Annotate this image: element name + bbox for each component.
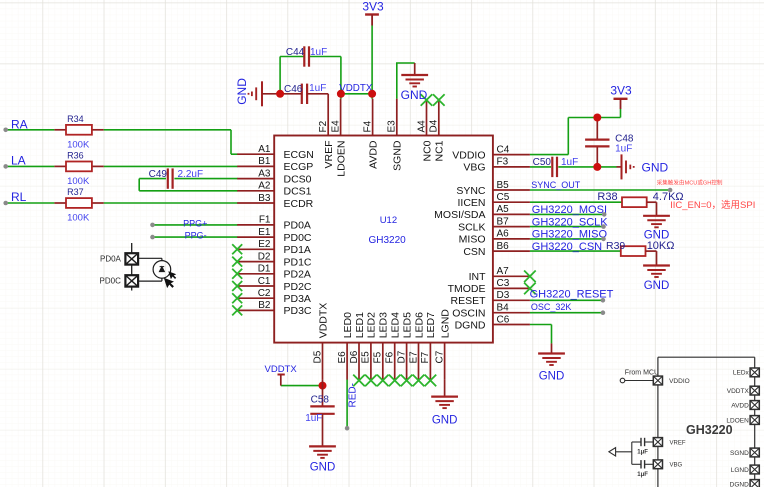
svg-text:GND: GND <box>539 371 565 383</box>
svg-text:E3: E3 <box>387 120 398 133</box>
svg-text:DCS1: DCS1 <box>284 186 312 198</box>
svg-text:GH3220_CSN: GH3220_CSN <box>532 241 602 253</box>
svg-text:E1: E1 <box>258 227 271 238</box>
svg-text:C7: C7 <box>434 350 445 363</box>
svg-text:GH3220_MISO: GH3220_MISO <box>532 229 608 241</box>
svg-text:B7: B7 <box>497 216 510 227</box>
svg-text:VDDTX: VDDTX <box>727 388 750 395</box>
svg-text:LGND: LGND <box>439 309 451 339</box>
svg-text:100K: 100K <box>67 139 90 150</box>
svg-text:1μF: 1μF <box>637 472 648 478</box>
svg-text:GH3220_RESET: GH3220_RESET <box>530 288 614 300</box>
svg-text:INT: INT <box>469 271 487 283</box>
svg-text:3V3: 3V3 <box>610 84 632 98</box>
svg-text:From MCU: From MCU <box>625 369 659 376</box>
svg-text:LED5: LED5 <box>401 312 413 338</box>
svg-text:R38: R38 <box>597 191 617 203</box>
svg-text:E5: E5 <box>361 351 372 364</box>
svg-text:SYNC: SYNC <box>456 185 486 197</box>
svg-text:A6: A6 <box>497 229 510 240</box>
svg-text:C6: C6 <box>497 314 510 325</box>
svg-text:D3: D3 <box>497 290 510 301</box>
svg-text:DCS0: DCS0 <box>284 173 312 185</box>
svg-text:PPG+: PPG+ <box>183 218 207 228</box>
svg-text:C58: C58 <box>311 394 330 405</box>
svg-text:采集触发由MCU或GH控制: 采集触发由MCU或GH控制 <box>657 178 723 186</box>
svg-text:D5: D5 <box>312 350 323 363</box>
svg-text:PD1C: PD1C <box>284 256 312 268</box>
svg-text:NC0: NC0 <box>421 140 433 161</box>
svg-text:3V3: 3V3 <box>362 0 384 13</box>
svg-text:VDDTX: VDDTX <box>317 303 329 339</box>
svg-text:C1: C1 <box>258 276 271 287</box>
svg-text:2.2uF: 2.2uF <box>178 169 204 180</box>
svg-text:DGND: DGND <box>730 481 749 487</box>
svg-text:R37: R37 <box>67 187 84 197</box>
svg-text:PD0C: PD0C <box>284 232 312 244</box>
svg-text:IICEN: IICEN <box>457 197 485 209</box>
svg-text:1uF: 1uF <box>310 47 327 58</box>
svg-text:MOSI/SDA: MOSI/SDA <box>434 209 485 221</box>
svg-text:F7: F7 <box>420 351 431 363</box>
svg-text:A2: A2 <box>258 181 271 192</box>
svg-text:IIC_EN=0，选用SPI: IIC_EN=0，选用SPI <box>670 199 755 211</box>
svg-text:D4: D4 <box>429 119 440 132</box>
svg-text:C50: C50 <box>533 157 552 168</box>
svg-text:RESET: RESET <box>450 295 486 307</box>
svg-text:C3: C3 <box>497 278 510 289</box>
svg-text:E7: E7 <box>408 351 419 364</box>
svg-text:A3: A3 <box>258 168 271 179</box>
svg-text:CSN: CSN <box>463 246 485 258</box>
svg-text:F3: F3 <box>497 157 509 168</box>
svg-text:E6: E6 <box>337 351 348 364</box>
svg-text:GND: GND <box>432 415 458 427</box>
svg-text:VREF: VREF <box>323 141 335 169</box>
svg-text:SGND: SGND <box>392 140 404 171</box>
svg-text:C49: C49 <box>149 169 168 180</box>
svg-text:PD0A: PD0A <box>284 220 311 232</box>
svg-text:D1: D1 <box>258 264 271 275</box>
svg-text:B4: B4 <box>497 303 510 314</box>
svg-text:SCLK: SCLK <box>458 221 485 233</box>
svg-text:GH3220_SCLK: GH3220_SCLK <box>532 216 608 228</box>
svg-text:PD0A: PD0A <box>100 255 122 264</box>
svg-text:F6: F6 <box>385 351 396 363</box>
svg-text:LED3: LED3 <box>378 312 390 338</box>
svg-text:LGND: LGND <box>731 467 749 474</box>
svg-text:RA: RA <box>11 117 28 131</box>
svg-text:R36: R36 <box>67 150 84 160</box>
svg-text:B5: B5 <box>497 180 510 191</box>
svg-text:AVDD: AVDD <box>731 402 749 409</box>
svg-text:ECGP: ECGP <box>284 161 314 173</box>
svg-text:C4: C4 <box>497 144 510 155</box>
svg-text:VREF: VREF <box>670 441 686 447</box>
svg-text:VBG: VBG <box>463 162 485 174</box>
svg-text:F4: F4 <box>362 120 373 132</box>
svg-text:GND: GND <box>401 88 428 102</box>
svg-text:OSCIN: OSCIN <box>452 308 485 320</box>
svg-text:C5: C5 <box>497 192 510 203</box>
svg-text:DGND: DGND <box>455 319 486 331</box>
svg-text:GH3220_MOSI: GH3220_MOSI <box>532 204 607 216</box>
svg-text:U12: U12 <box>380 215 397 226</box>
svg-text:LED6: LED6 <box>413 312 425 338</box>
svg-text:LED0: LED0 <box>342 312 354 338</box>
svg-text:D2: D2 <box>258 251 271 262</box>
svg-text:PD3C: PD3C <box>284 305 312 317</box>
svg-text:1uF: 1uF <box>309 83 326 94</box>
svg-text:100K: 100K <box>67 213 90 224</box>
svg-text:LED4: LED4 <box>390 312 402 338</box>
svg-text:D6: D6 <box>349 350 360 363</box>
svg-text:LDOEN: LDOEN <box>726 417 749 424</box>
svg-text:E2: E2 <box>258 239 271 250</box>
svg-text:1uF: 1uF <box>615 143 632 154</box>
svg-text:VDDIO: VDDIO <box>669 378 690 385</box>
svg-text:GND: GND <box>642 160 669 174</box>
svg-text:LED2: LED2 <box>366 312 378 338</box>
svg-text:F2: F2 <box>318 120 329 132</box>
svg-text:B6: B6 <box>497 241 510 252</box>
svg-text:A4: A4 <box>416 120 427 133</box>
svg-text:1μF: 1μF <box>637 450 648 456</box>
svg-text:GND: GND <box>644 280 670 292</box>
svg-text:C46: C46 <box>284 84 303 95</box>
svg-text:PD0C: PD0C <box>100 277 122 286</box>
svg-text:LDOEN: LDOEN <box>335 141 347 177</box>
svg-text:A5: A5 <box>497 204 510 215</box>
svg-text:ECGN: ECGN <box>284 149 314 161</box>
svg-text:NC1: NC1 <box>434 140 446 161</box>
svg-text:GND: GND <box>310 462 336 474</box>
svg-text:F5: F5 <box>373 351 384 363</box>
svg-text:PD2A: PD2A <box>284 269 311 281</box>
svg-text:GH3220: GH3220 <box>686 423 733 437</box>
svg-text:PD2C: PD2C <box>284 281 312 293</box>
svg-text:F1: F1 <box>259 215 271 226</box>
svg-text:RL: RL <box>11 190 27 204</box>
svg-text:A7: A7 <box>497 266 510 277</box>
svg-text:10KΩ: 10KΩ <box>647 240 675 252</box>
svg-text:LEDx: LEDx <box>733 370 750 377</box>
svg-text:OSC_32K: OSC_32K <box>531 302 572 312</box>
svg-text:VBG: VBG <box>670 463 683 469</box>
svg-text:1uF: 1uF <box>561 157 578 168</box>
svg-text:LA: LA <box>11 154 26 168</box>
svg-text:PD3A: PD3A <box>284 293 311 305</box>
svg-text:AVDD: AVDD <box>367 140 379 169</box>
svg-text:E4: E4 <box>330 120 341 133</box>
svg-text:PD1A: PD1A <box>284 244 311 256</box>
svg-text:R34: R34 <box>67 114 84 124</box>
svg-text:LED1: LED1 <box>354 312 366 338</box>
svg-text:TMODE: TMODE <box>448 283 486 295</box>
svg-text:R39: R39 <box>606 240 625 252</box>
svg-text:1uF: 1uF <box>305 413 322 424</box>
svg-text:100K: 100K <box>67 176 90 187</box>
svg-text:GH3220: GH3220 <box>369 235 407 246</box>
svg-text:RED-: RED- <box>348 383 359 407</box>
svg-text:D7: D7 <box>396 350 407 363</box>
svg-text:LED7: LED7 <box>425 312 437 338</box>
svg-text:A1: A1 <box>258 144 271 155</box>
svg-text:SGND: SGND <box>730 450 749 457</box>
svg-text:B3: B3 <box>258 193 271 204</box>
svg-text:PPG-: PPG- <box>185 231 207 241</box>
svg-text:VDDIO: VDDIO <box>452 149 485 161</box>
svg-text:B2: B2 <box>258 300 271 311</box>
svg-text:C2: C2 <box>258 288 271 299</box>
svg-text:ECDR: ECDR <box>284 198 314 210</box>
svg-text:SYNC_OUT: SYNC_OUT <box>531 180 581 190</box>
svg-text:B1: B1 <box>258 156 271 167</box>
svg-text:GND: GND <box>235 78 249 105</box>
svg-text:MISO: MISO <box>459 234 486 246</box>
svg-text:C44: C44 <box>286 47 305 58</box>
